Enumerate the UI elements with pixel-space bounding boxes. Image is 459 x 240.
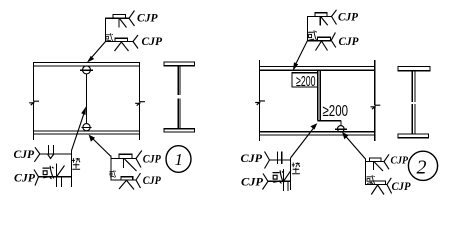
beam 2 left edge [259, 60, 261, 141]
beam 2 web splice double line [318, 70, 321, 120]
svg-text:CJP: CJP [137, 13, 158, 25]
S5 character dian (backing) [292, 163, 300, 174]
svg-text:CJP: CJP [143, 154, 162, 166]
I-beam section 2 web [412, 71, 415, 134]
svg-text:CJP: CJP [14, 149, 35, 161]
dimension box >=200 (top) [292, 73, 318, 87]
S2 reference line 1 [40, 153, 72, 155]
beam 1 top flange lines [33, 63, 140, 67]
S4 character huo (or) [308, 30, 317, 41]
beam 1 right break mark [135, 102, 145, 106]
S4 left vertical [307, 17, 309, 41]
S3 tail 2 [136, 173, 141, 188]
beam 2 bottom weld point circle [335, 126, 347, 133]
dimension leader (bottom offset) [318, 121, 341, 126]
S5 character huo (or) [273, 170, 284, 183]
leader from top weld symbol S4 to top flange joint, arrow [293, 41, 308, 72]
S6 tail 1 [384, 154, 389, 169]
beam 1 left break mark [29, 101, 39, 105]
S5 right vertical [290, 158, 292, 190]
S1 reference line 2 [105, 41, 133, 43]
S6 reference line 1 [365, 161, 384, 163]
beam 2 right edge [374, 60, 376, 141]
S5 tail 1 [265, 152, 270, 169]
beam 2 bottom flange lines [259, 132, 375, 135]
S2 square groove symbol with root arc, line 1 [48, 145, 55, 159]
I-beam section 2 bottom flange [398, 134, 429, 138]
I-beam section 2 top flange [398, 67, 430, 71]
S5 square groove symbol, line 1 [278, 152, 282, 164]
S4 reference line 2 [307, 40, 331, 42]
S2 tail 1 [34, 147, 39, 162]
svg-text:CJP: CJP [142, 36, 163, 48]
S2 character huo (or) [43, 166, 54, 179]
S3 backing rectangle 2 [121, 177, 133, 180]
svg-text:CJP: CJP [338, 12, 359, 24]
S3 character huo (or) [110, 170, 116, 177]
svg-text:≥200: ≥200 [296, 73, 316, 90]
S6 bevel groove symbol 1 [374, 162, 383, 171]
S3 V-groove symbol 2 [119, 180, 134, 189]
beam 1 bottom flange lines [33, 131, 140, 134]
S6 V-groove symbol 2 [371, 185, 384, 195]
svg-text:CJP: CJP [241, 153, 264, 165]
svg-text:CJP: CJP [143, 175, 162, 187]
S2 leader to web splice, arrow [72, 107, 87, 151]
S4 bevel groove symbol 1 [320, 17, 327, 26]
S1 backing rectangle 1 [113, 15, 126, 19]
S6 tail 2 [387, 178, 392, 194]
I-beam section 1 top flange [164, 62, 195, 66]
S6 character huo (or) [367, 175, 375, 184]
S5 double bevel symbol, line 2 [284, 169, 292, 191]
svg-text:CJP: CJP [391, 154, 409, 166]
beam 2 left break mark [255, 101, 265, 105]
S1 character huo (or) [106, 33, 113, 42]
svg-text:≥200: ≥200 [323, 103, 349, 120]
detail number circle 1 [166, 146, 191, 173]
S6 left vertical [365, 159, 367, 185]
S1 left vertical [105, 18, 107, 42]
S6 backing rectangle 1 [370, 158, 382, 162]
S4 V-groove symbol 2 [316, 41, 328, 51]
S5 leader to web splice end, arrow [291, 123, 318, 158]
beam 1 bottom weld point circle [82, 124, 92, 131]
S5 reference line 1 [270, 159, 291, 161]
S2 tail 2 [34, 170, 39, 186]
leader from top weld symbol S1 to top flange joint, arrow [87, 42, 106, 63]
beam 2 right break mark [371, 105, 381, 109]
S1 tail 1 [129, 11, 135, 27]
S3 tail 1 [136, 151, 142, 168]
S1 backing rectangle 2 [115, 38, 128, 41]
S4 tail 2 [331, 33, 336, 48]
beam 2 top flange lines [259, 67, 375, 71]
S2 double bevel symbol, line 2 [57, 164, 65, 188]
S4 tail 1 [332, 10, 337, 25]
beam 1 top weld point circle [80, 66, 93, 74]
svg-text:CJP: CJP [339, 36, 360, 48]
S1 bevel groove symbol 1 [119, 18, 127, 27]
S4 backing rectangle 1 [315, 13, 327, 17]
S6 backing rectangle 2 [371, 181, 386, 185]
S4 reference line 1 [307, 16, 332, 18]
S2 character dian (backing) [72, 158, 80, 169]
svg-text:1: 1 [175, 150, 184, 169]
detail number circle 2 [408, 151, 437, 180]
I-beam section 1 bottom flange [164, 129, 195, 132]
beam 1 right edge [139, 62, 141, 140]
svg-text:CJP: CJP [392, 181, 412, 193]
beam 1 web splice line [86, 74, 88, 124]
S3 leader from bottom flange joint, arrow [89, 135, 111, 157]
I-beam section 1 web [178, 66, 180, 129]
beam 1 left edge [33, 62, 35, 140]
S6 leader from bottom flange joint, arrow [342, 132, 366, 159]
S3 left vertical [110, 156, 112, 181]
S2 right vertical [71, 150, 73, 187]
S3 backing rectangle 1 [119, 154, 132, 158]
S3 reference line 1 [111, 158, 137, 160]
S5 reference line 2 [268, 180, 291, 182]
S4 backing rectangle 2 [318, 37, 331, 40]
svg-text:CJP: CJP [241, 175, 264, 189]
S1 reference line 1 [105, 17, 129, 19]
S1 tail 2 [133, 35, 138, 49]
S3 reference line 2 [111, 179, 137, 181]
S6 reference line 2 [365, 184, 387, 186]
svg-text:CJP: CJP [14, 173, 36, 185]
S2 reference line 2 [39, 176, 72, 178]
S1 V-groove symbol 2 [115, 42, 129, 51]
S3 bevel groove symbol 1 [124, 159, 137, 172]
svg-text:2: 2 [417, 157, 427, 179]
S5 tail 2 [263, 174, 269, 190]
